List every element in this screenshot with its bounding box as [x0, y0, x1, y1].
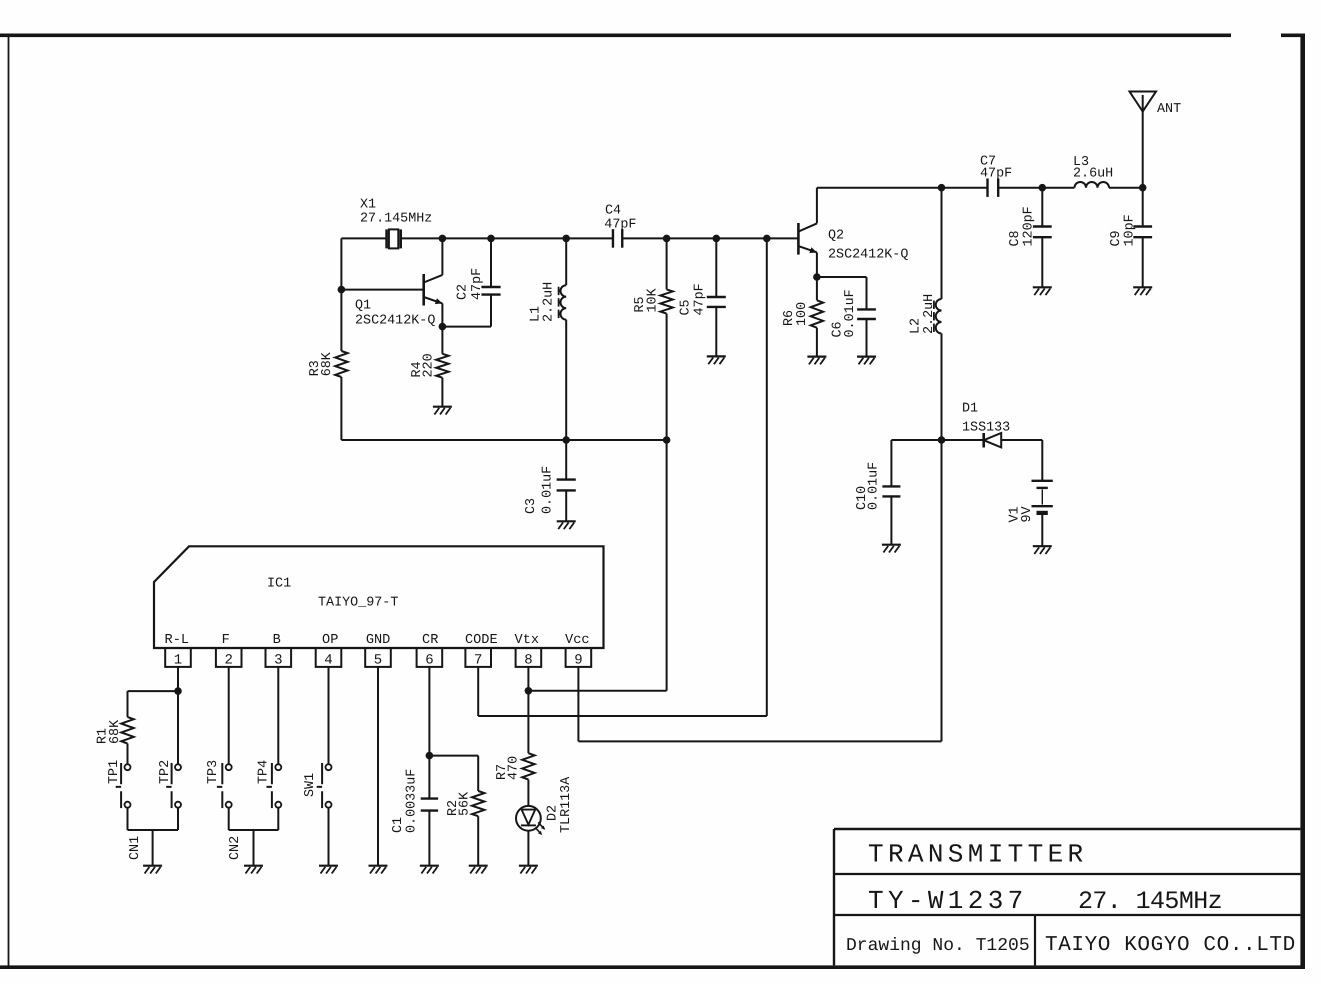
svg-text:5: 5 — [374, 652, 382, 668]
svg-text:470: 470 — [506, 756, 521, 780]
svg-text:1SS133: 1SS133 — [962, 421, 1010, 436]
svg-text:Q1: Q1 — [355, 298, 371, 313]
svg-text:B: B — [273, 633, 281, 648]
svg-text:TY-W1237: TY-W1237 — [868, 886, 1028, 916]
svg-text:47pF: 47pF — [693, 283, 708, 315]
svg-text:OP: OP — [322, 633, 338, 648]
svg-text:3: 3 — [274, 652, 282, 668]
svg-text:0.0033uF: 0.0033uF — [404, 769, 419, 833]
svg-text:Vcc: Vcc — [565, 633, 589, 648]
svg-text:120pF: 120pF — [1021, 206, 1036, 246]
svg-text:TP1: TP1 — [107, 760, 122, 784]
svg-text:8: 8 — [524, 652, 532, 668]
svg-text:2.6uH: 2.6uH — [1073, 167, 1113, 182]
svg-text:GND: GND — [366, 633, 390, 648]
svg-text:27. 145MHz: 27. 145MHz — [1078, 887, 1222, 916]
svg-text:TP3: TP3 — [206, 760, 221, 784]
svg-text:27.145MHz: 27.145MHz — [360, 211, 432, 226]
svg-text:TP4: TP4 — [256, 760, 271, 784]
svg-text:TLR113A: TLR113A — [559, 776, 574, 833]
svg-text:68K: 68K — [108, 719, 123, 744]
svg-text:10K: 10K — [646, 287, 661, 312]
svg-text:2SC2412K-Q: 2SC2412K-Q — [828, 248, 908, 263]
svg-text:CR: CR — [422, 633, 438, 648]
svg-text:R-L: R-L — [165, 633, 189, 648]
svg-text:10pF: 10pF — [1122, 214, 1137, 246]
svg-text:C3: C3 — [524, 498, 539, 514]
svg-text:4: 4 — [324, 652, 332, 668]
svg-text:F: F — [222, 633, 230, 648]
svg-text:0.01uF: 0.01uF — [867, 462, 882, 510]
svg-text:Q2: Q2 — [828, 228, 844, 243]
svg-text:TAIYO_97-T: TAIYO_97-T — [318, 596, 398, 611]
svg-text:47pF: 47pF — [604, 217, 636, 232]
svg-text:Drawing No. T1205: Drawing No. T1205 — [846, 936, 1030, 956]
svg-text:C5: C5 — [678, 299, 693, 315]
svg-text:220: 220 — [422, 353, 437, 377]
svg-text:Vtx: Vtx — [515, 633, 539, 648]
svg-text:IC1: IC1 — [267, 577, 291, 592]
svg-text:9V: 9V — [1020, 506, 1035, 522]
svg-text:D1: D1 — [962, 402, 978, 417]
svg-text:CN2: CN2 — [228, 836, 243, 860]
svg-text:2: 2 — [224, 652, 232, 668]
svg-text:TRANSMITTER: TRANSMITTER — [868, 840, 1087, 870]
svg-text:X1: X1 — [360, 197, 376, 212]
svg-text:1: 1 — [174, 652, 182, 668]
svg-text:CODE: CODE — [465, 633, 498, 648]
svg-text:TAIYO KOGYO CO..LTD: TAIYO KOGYO CO..LTD — [1045, 934, 1296, 957]
svg-text:SW1: SW1 — [303, 773, 318, 797]
svg-text:ANT: ANT — [1157, 102, 1181, 117]
svg-text:2SC2412K-Q: 2SC2412K-Q — [355, 313, 435, 328]
svg-text:CN1: CN1 — [128, 836, 143, 860]
svg-text:6: 6 — [425, 652, 433, 668]
svg-text:C2: C2 — [456, 284, 471, 300]
svg-text:TP2: TP2 — [158, 760, 173, 784]
svg-text:100: 100 — [795, 302, 810, 326]
svg-text:0.01uF: 0.01uF — [541, 466, 556, 514]
svg-text:9: 9 — [574, 652, 582, 668]
svg-text:0.01uF: 0.01uF — [843, 289, 858, 337]
svg-text:7: 7 — [474, 652, 482, 668]
svg-text:2.2uH: 2.2uH — [922, 294, 937, 334]
svg-text:47pF: 47pF — [470, 268, 485, 300]
svg-text:56K: 56K — [458, 791, 473, 816]
svg-text:68K: 68K — [320, 351, 335, 376]
svg-text:2.2uH: 2.2uH — [541, 282, 556, 322]
svg-text:47pF: 47pF — [980, 167, 1012, 182]
